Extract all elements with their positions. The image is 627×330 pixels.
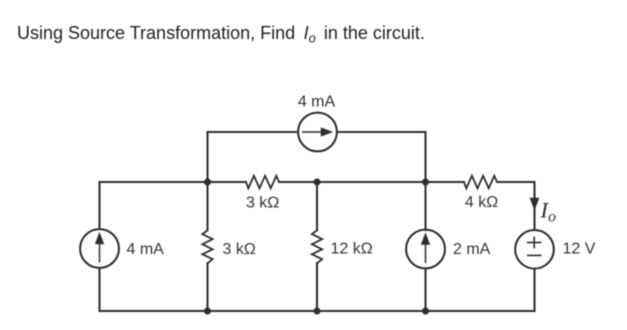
svg-text:Io: Io [540, 198, 557, 226]
svg-text:4 mA: 4 mA [298, 94, 336, 111]
svg-text:4 mA: 4 mA [127, 241, 165, 258]
svg-text:2 mA: 2 mA [453, 241, 491, 258]
svg-text:Using Source Transformation, F: Using Source Transformation, Find Io in … [17, 23, 425, 46]
svg-text:3 kΩ: 3 kΩ [223, 241, 256, 258]
svg-text:12 kΩ: 12 kΩ [331, 241, 373, 258]
svg-text:3 kΩ: 3 kΩ [246, 195, 279, 212]
svg-text:12 V: 12 V [563, 241, 596, 258]
svg-text:4 kΩ: 4 kΩ [465, 194, 498, 211]
